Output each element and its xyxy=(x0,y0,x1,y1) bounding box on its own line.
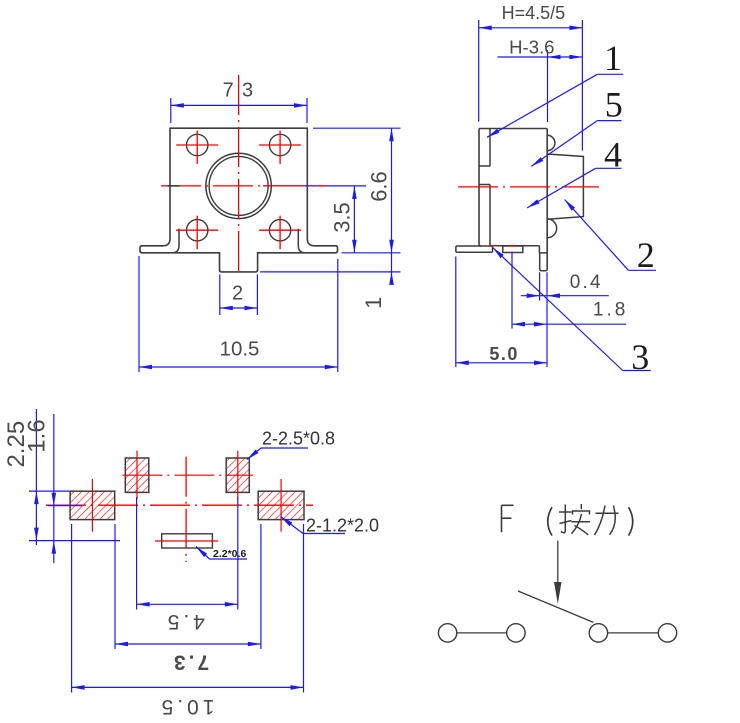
dimension 0.4: extension lines xyxy=(540,272,547,367)
svg-text:1: 1 xyxy=(604,38,622,78)
dimension 5.0: value text xyxy=(489,344,519,364)
side view: body bottom edge and step xyxy=(490,246,539,253)
dimension 2.25: dimension line xyxy=(34,409,39,545)
side view: bracket foot plate xyxy=(456,246,493,252)
label 2-1.2*2.0: text xyxy=(306,516,379,536)
symbol: close paren xyxy=(629,507,633,535)
symbol: actuator lever line xyxy=(518,591,593,622)
callout 2: number xyxy=(637,235,655,275)
label 2-1.2*2.0: leader xyxy=(281,517,346,534)
dimension 4.5: value text upside down xyxy=(164,610,205,633)
side view: body outline xyxy=(479,129,547,270)
dimension 10.5 front: value text xyxy=(220,338,260,361)
symbol: character Li (force) xyxy=(595,506,619,536)
dimension 7.3: value text upside down xyxy=(171,651,209,674)
label 2-2.5*0.8: text xyxy=(262,429,335,449)
symbol: letter F strokes xyxy=(502,505,514,532)
svg-text:H-3.6: H-3.6 xyxy=(509,37,554,58)
label 2.2*0.6: leader xyxy=(196,547,247,560)
dimension 2.25: value text xyxy=(3,421,30,468)
svg-text:2: 2 xyxy=(232,283,243,305)
front view: center boss circle xyxy=(206,153,271,218)
side view: plunger stem xyxy=(547,154,583,219)
front view: switch body outline xyxy=(140,128,338,272)
dimension 2 notch: extension lines xyxy=(220,274,258,315)
dimension H-3.6: value text xyxy=(509,37,554,58)
svg-text:1.8: 1.8 xyxy=(593,300,628,321)
front view: corner hole top-right xyxy=(269,134,290,155)
dimension 10.5 pcb: value text upside down xyxy=(158,695,215,718)
callout 5: number xyxy=(605,84,623,124)
dimension 7.3 top: dimension line with arrows xyxy=(171,103,307,108)
dimension 7.3 top: value text 3 xyxy=(242,80,253,102)
symbol: wire between terminals 3-4 xyxy=(608,632,659,634)
dimension 1.8: extension line xyxy=(511,252,513,329)
dimension 5.0: extension line xyxy=(455,256,457,367)
svg-text:7.3: 7.3 xyxy=(171,651,209,674)
svg-text:2-2.5*0.8: 2-2.5*0.8 xyxy=(262,429,335,449)
front view: hole centermarks red xyxy=(176,131,301,250)
front view: horizontal centerline red xyxy=(161,185,326,187)
pcb pattern: vertical centerline red xyxy=(185,457,187,562)
dimension H-3.6: dimension line xyxy=(497,55,582,60)
symbol: terminal circle 4 xyxy=(658,624,676,642)
dimension 2 notch: dimension line xyxy=(220,306,258,311)
dimension 3.5: dimension line xyxy=(352,186,357,253)
dimension H=4.5/5: dimension line xyxy=(479,26,583,31)
dimension 6.6: extension lines xyxy=(313,128,401,253)
svg-text:1: 1 xyxy=(361,297,386,309)
svg-text:3: 3 xyxy=(242,80,253,102)
svg-text:2: 2 xyxy=(637,235,655,275)
front view: vertical centerline red xyxy=(238,75,240,275)
callout 2: leader xyxy=(565,200,656,271)
side view: bottom dome bump arc xyxy=(547,219,556,238)
front view: corner hole top-left xyxy=(187,134,208,155)
dimension 2.25: extension lines xyxy=(29,491,120,540)
pcb pattern: red centermarks of top pads xyxy=(137,451,238,500)
dimension 10.5 front: extension lines xyxy=(139,256,338,372)
svg-text:2-1.2*2.0: 2-1.2*2.0 xyxy=(306,516,379,536)
callout 1: leader xyxy=(487,74,623,137)
side view: horizontal centerline red xyxy=(458,186,599,188)
svg-text:7: 7 xyxy=(223,80,234,102)
dimension 5.0: dimension line xyxy=(456,361,547,366)
side view: red ticks on foot xyxy=(491,245,515,247)
svg-text:2.2*0.6: 2.2*0.6 xyxy=(213,548,246,560)
svg-text:4.5: 4.5 xyxy=(164,610,205,633)
symbol: force arrow xyxy=(554,541,562,604)
dimension 1: extension line at notch bottom xyxy=(260,271,401,273)
callout 4: number xyxy=(604,135,622,175)
dimension 7.3 top: extension lines xyxy=(171,98,307,123)
dimension H-3.6: extension line xyxy=(547,50,549,122)
pcb pattern: hatch pads xyxy=(70,458,304,520)
pcb pattern: red line through slot xyxy=(155,540,218,542)
symbol: terminal circle 3 xyxy=(589,624,607,642)
side view: left tab inner line xyxy=(479,129,490,167)
side view: top dome bump arc xyxy=(547,135,555,150)
front view: blue extension on centerline for dim 3.5 xyxy=(263,185,366,187)
svg-text:6.6: 6.6 xyxy=(367,171,392,202)
pcb pattern: center slot rectangle xyxy=(162,534,213,548)
svg-text:0.4: 0.4 xyxy=(570,272,603,293)
dimension 2 notch: value text xyxy=(232,283,243,305)
pcb pattern: red centermarks of side pads xyxy=(92,479,281,532)
pcb dims: extension lines below xyxy=(72,497,304,693)
dimension 7.3 top: value text 7 xyxy=(223,80,234,102)
pcb pattern: horizontal centerline red xyxy=(46,504,313,506)
front view: corner hole bottom-left xyxy=(187,220,208,241)
dimension 0.4: value text xyxy=(570,272,603,293)
dimension 0.4: dimension line outside arrows xyxy=(521,293,609,298)
dimension 1.6: value text xyxy=(24,419,51,452)
symbol: character An (press) xyxy=(559,504,590,535)
svg-text:5: 5 xyxy=(605,84,623,124)
dimension 1.8: dimension line xyxy=(512,322,626,327)
dimension H=4.5/5: extension lines xyxy=(479,20,583,151)
symbol: open paren xyxy=(548,507,552,535)
front view: corner hole bottom-right xyxy=(269,220,290,241)
svg-text:1.6: 1.6 xyxy=(24,419,51,452)
pcb pattern: red line through top pads xyxy=(122,474,253,476)
dimension 1: dimension line outside arrows xyxy=(389,253,394,285)
symbol: terminal circle 1 xyxy=(438,624,456,642)
svg-text:H=4.5/5: H=4.5/5 xyxy=(502,3,566,23)
dimension 3.5: value text xyxy=(329,202,354,233)
dimension 1.8: value text xyxy=(593,300,628,321)
dimension H=4.5/5: value text xyxy=(502,3,566,23)
svg-text:3.5: 3.5 xyxy=(329,202,354,233)
label 2-2.5*0.8: leader xyxy=(247,448,308,460)
svg-text:5.0: 5.0 xyxy=(489,344,519,364)
callout 5: leader xyxy=(531,121,621,167)
dimension 6.6: dimension line xyxy=(389,128,394,253)
side view: left leg inner line xyxy=(479,185,490,247)
symbol: terminal circle 2 xyxy=(507,624,525,642)
side view: rear terminal under body xyxy=(503,246,523,253)
callout 4: leader xyxy=(527,168,621,208)
dimension 10.5 front: dimension line xyxy=(139,365,338,370)
front view: right bend line xyxy=(298,229,305,253)
dimension 4.5: dimension line xyxy=(137,602,238,607)
dimension 1.6: extension line xyxy=(48,505,82,507)
dimension 1: value text xyxy=(361,297,386,309)
callout 1: number xyxy=(604,38,622,78)
dimension 1.6: dimension line outside arrows xyxy=(52,414,57,563)
label 2.2*0.6: text xyxy=(213,548,246,560)
dimension 7.3: dimension line xyxy=(115,642,261,647)
callout 3: leader xyxy=(493,248,651,371)
side view: front pin xyxy=(540,253,548,271)
front view: left bend line xyxy=(172,229,179,253)
svg-text:10.5: 10.5 xyxy=(220,338,260,361)
svg-text:10.5: 10.5 xyxy=(158,695,215,718)
dimension 10.5 pcb: dimension line xyxy=(72,685,304,690)
dimension 6.6: value text xyxy=(367,171,392,202)
front view: black tick on left edge centerline xyxy=(168,185,180,187)
callout 3: number xyxy=(631,337,649,377)
symbol: wire between terminals 1-2 xyxy=(457,632,507,634)
